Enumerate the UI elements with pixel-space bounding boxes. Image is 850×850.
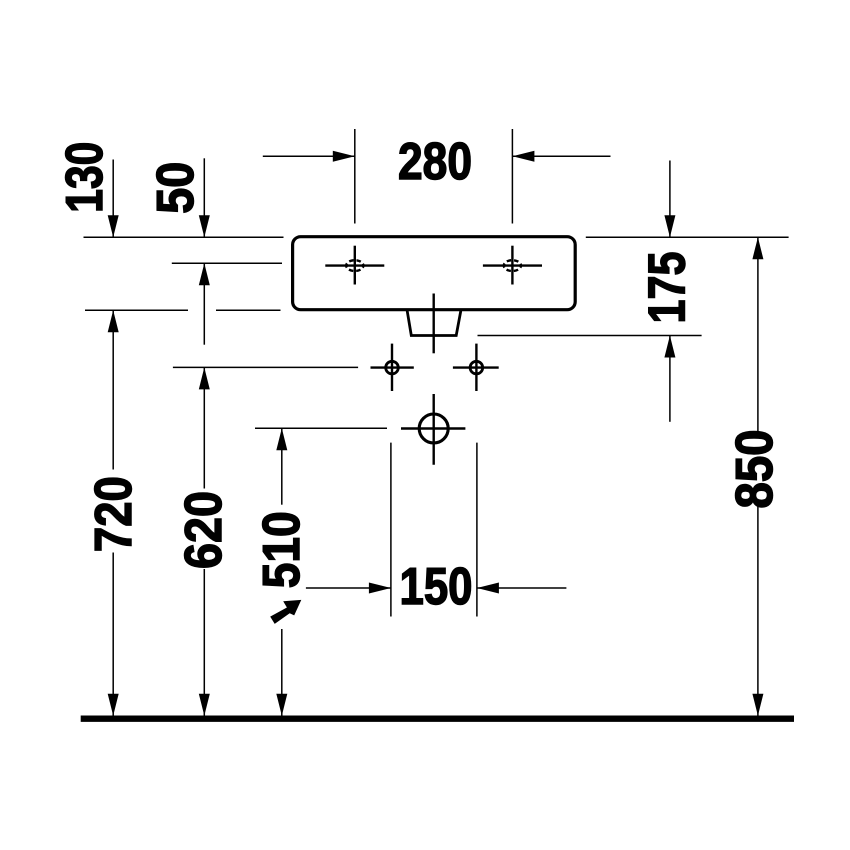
reference line rim level left	[84, 236, 284, 238]
arrow up dim 510	[276, 428, 287, 450]
reference line drain level	[255, 427, 387, 429]
reference line spigot bottom right	[478, 335, 702, 337]
reference line rim level right	[586, 236, 789, 238]
basin body outline	[293, 237, 576, 310]
reference line 50 below rim	[172, 262, 282, 264]
arrow right dim 150	[369, 583, 391, 594]
dim 510 line upper	[281, 428, 283, 504]
arrow down dim 50	[199, 215, 210, 237]
svg-text:850: 850	[725, 430, 783, 509]
dim 850 line upper	[757, 237, 759, 433]
svg-text:620: 620	[174, 491, 232, 569]
dim 850 line lower	[757, 504, 759, 716]
reference line basin bottom left b	[216, 309, 281, 311]
arrow up dim 620	[199, 367, 210, 389]
dim 280 extension line right	[511, 129, 513, 224]
svg-text:130: 130	[55, 142, 113, 213]
dim 175 line lower	[669, 336, 671, 422]
svg-text:175: 175	[637, 252, 695, 324]
arrow up dim 720	[108, 310, 119, 332]
reference line fixing hole level	[173, 366, 358, 368]
arrow down dim 620	[199, 694, 210, 716]
leader arrow for dim 510	[270, 600, 301, 624]
arrow down dim 850	[752, 694, 763, 716]
arrow down dim 130	[108, 215, 119, 237]
drain outlet circle with crosshair	[401, 394, 465, 465]
fixing hole right (circle with crosshair)	[453, 344, 499, 391]
svg-text:280: 280	[398, 132, 472, 190]
dim 620 line upper	[203, 367, 205, 488]
arrow right dim 280	[333, 151, 355, 162]
arrow up dim 50	[199, 263, 210, 285]
arrow left dim 150	[477, 583, 499, 594]
dim 175 line upper	[669, 161, 671, 238]
reference line basin bottom left a	[85, 309, 188, 311]
dim 280 line right	[512, 155, 610, 157]
dim 280 extension line left	[354, 129, 356, 224]
drain spigot trapezoid	[407, 310, 461, 336]
centerline through drain spigot	[433, 294, 435, 354]
svg-text:150: 150	[400, 557, 473, 615]
arrow down dim 720	[108, 694, 119, 716]
dim 150 extension line left	[390, 443, 392, 617]
dim 150 line right	[477, 587, 567, 589]
dim 510 line lower	[281, 629, 283, 716]
dim 150 extension line right	[476, 443, 478, 617]
dim 130 line	[112, 160, 114, 237]
svg-text:720: 720	[84, 476, 142, 552]
svg-text:50: 50	[146, 162, 204, 214]
dim 280 line left	[263, 155, 355, 157]
dim 150 line left	[306, 587, 391, 589]
floor line	[81, 716, 794, 722]
dim 620 line lower	[203, 569, 205, 716]
dim 720 line upper	[112, 310, 114, 469]
dim 50 lower tail	[203, 263, 205, 344]
fixing hole left (circle with crosshair)	[371, 344, 414, 391]
arrow up dim 175	[664, 336, 675, 358]
arrow down dim 510	[276, 694, 287, 716]
dim 50 line	[203, 158, 205, 236]
tap hole left (dashed circle with crosshair)	[325, 246, 384, 285]
dim 720 line lower	[112, 553, 114, 716]
arrow up dim 850	[752, 237, 763, 259]
arrow down dim 175	[664, 215, 675, 237]
tap hole right (dashed circle with crosshair)	[483, 246, 542, 285]
svg-text:510: 510	[252, 511, 310, 588]
arrow left dim 280	[512, 151, 534, 162]
